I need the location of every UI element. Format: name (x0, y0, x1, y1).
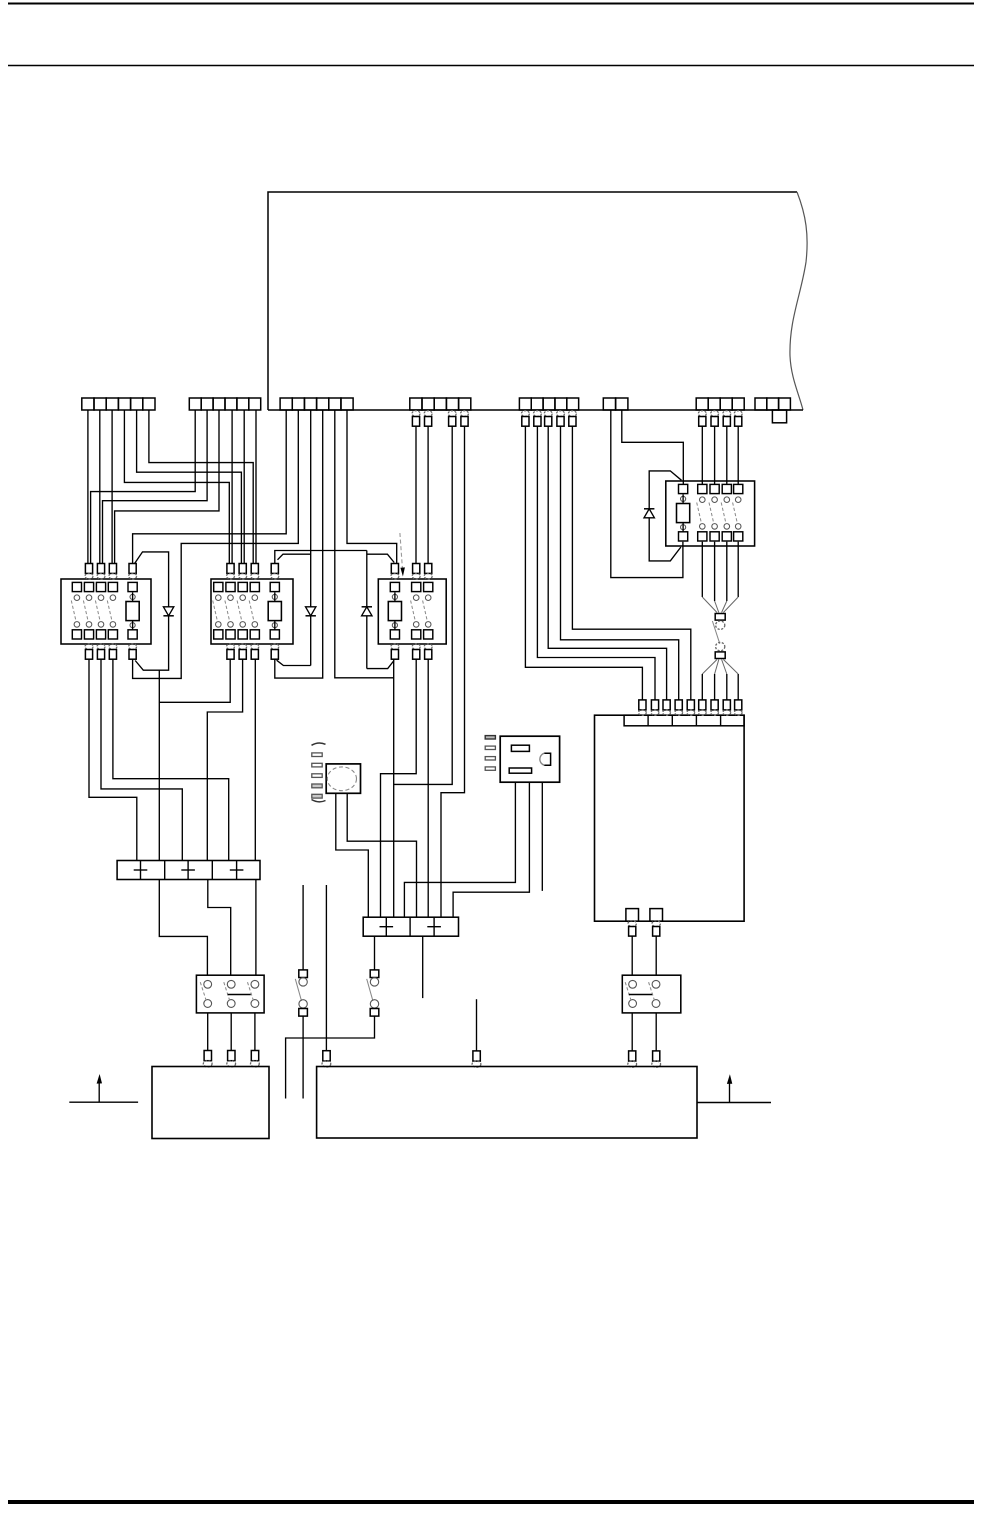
plug above relay K3 (413, 564, 420, 574)
relay contact terminal (bottom) (734, 532, 743, 541)
relay body (61, 579, 151, 644)
relay contact terminal (top) (424, 582, 433, 591)
relay contact terminal (top) (108, 582, 117, 591)
page header rule top (8, 3, 974, 5)
splice connector lower (715, 652, 725, 659)
diode D2 (across K2 coil) (306, 607, 316, 616)
relay contact fixed point (735, 497, 741, 503)
relay contact terminal (bottom) (722, 532, 731, 541)
wire K4 c2 to splice (714, 542, 716, 601)
plug below relay K3 (412, 644, 420, 650)
relay contact fixed point (252, 595, 258, 601)
plug below relay K2 (251, 644, 259, 650)
plug above relay K2 (271, 564, 278, 574)
wire D1 to K1 coil bottom (135, 616, 168, 670)
relay contact moving point (74, 622, 80, 628)
wire CN7-2 to K4 c2 (714, 426, 716, 484)
page footer rule (8, 1500, 974, 1504)
ground arrow (left) (98, 1081, 100, 1102)
wire S1-1 to junction box (207, 1013, 209, 1051)
relay contact terminal (bottom) (424, 630, 433, 639)
wire CN2-6 to K2 t4 (255, 410, 257, 564)
wire D3 bottom to K3 coil bottom (367, 661, 394, 669)
wire D4 bottom link (649, 518, 681, 561)
relay contact terminal (top) (214, 582, 223, 591)
wire CN2-4 to K2 t2 (231, 410, 233, 564)
wire CN5-4 to control t4 (561, 426, 679, 700)
relay contact blade (733, 503, 738, 524)
wire stub to fuse holder FH1 (302, 885, 304, 970)
relay contact fixed point (228, 595, 234, 601)
relay contact terminal (bottom) (72, 630, 81, 639)
plug above control unit (651, 700, 658, 710)
splice connector upper (715, 614, 725, 621)
plug above main box (mid) (473, 1051, 480, 1061)
relay coil lead bottom (132, 621, 134, 630)
relay contact blade (107, 601, 112, 622)
diode D1 (across K1 coil) (163, 607, 173, 616)
splice ring upper (716, 621, 725, 629)
wire CN3-6 to K3 coil top (347, 410, 397, 564)
relay contact terminal (top) (238, 582, 247, 591)
wire CN1-6 to K2 t4 (149, 410, 253, 564)
wire CN4-1 to K3 t2 (415, 426, 417, 563)
wire control unit to S2-1 (631, 936, 633, 975)
plug under CN7 (698, 411, 706, 417)
wire D2 vertical lower (310, 616, 312, 666)
plug below relay K2 (271, 644, 279, 650)
main control unit box (torn right edge) (268, 192, 797, 410)
relay contact moving point (240, 622, 246, 628)
wire K1 contact2 to F1 cell1 (89, 659, 137, 860)
AC outlet slot upper (511, 745, 529, 751)
plug below relay K1 (85, 644, 93, 650)
plug above main box (r2) (653, 1051, 660, 1061)
relay contact blade (225, 601, 230, 622)
switch box S2 (622, 975, 681, 1013)
relay contact fixed point (86, 595, 92, 601)
buzzer label bracket top (312, 743, 326, 745)
buzzer BZ1 body (326, 764, 360, 793)
connector CN8 (3-way, on unit edge) (755, 398, 767, 410)
splice blade (712, 621, 719, 644)
relay contact terminal (top) (722, 484, 731, 493)
plug above relay K2 (227, 564, 234, 574)
relay K1 group (61, 579, 151, 644)
relay coil joint bottom (681, 525, 686, 530)
relay body (211, 579, 293, 644)
wire CN1-1 to K1 t2 (87, 410, 89, 564)
relay contact fixed point (98, 595, 104, 601)
connector CN1 (6-way, floating left) (82, 398, 94, 410)
relay contact fixed point (425, 595, 431, 601)
plug above main box (r1) (629, 1051, 636, 1061)
relay contact moving point (413, 622, 419, 628)
wire K1 contact3 to F1 cell3 (101, 659, 182, 860)
relay contact terminal (bottom) (226, 630, 235, 639)
relay contact terminal (top) (698, 484, 707, 493)
plug above relay K2 (251, 564, 258, 574)
wire control unit to S2-2 (655, 936, 657, 975)
wire buzzer lead 1 to F2 cell1 (336, 793, 369, 917)
wire CN6-1 to K4 coil bottom (611, 410, 683, 578)
main harness box (bottom) (317, 1067, 697, 1139)
relay contact terminal (top) (710, 484, 719, 493)
relay contact terminal (bottom) (698, 532, 707, 541)
relay contact blade (83, 601, 88, 622)
relay contact fixed point (724, 497, 730, 503)
outlet label mark 3 (485, 757, 495, 760)
relay contact moving point (712, 524, 718, 530)
plug above control unit (711, 700, 718, 710)
buzzer label mark 4 (312, 784, 322, 788)
wire K3 coil bottom to F2 (393, 659, 395, 917)
wire CN7-3 to K4 c3 (726, 426, 728, 484)
relay contact terminal (top) (250, 582, 259, 591)
relay coil terminal (bottom) (128, 630, 137, 639)
connector CN4 (5-way, on unit edge) (410, 398, 422, 410)
outlet label mark 1 (485, 736, 495, 739)
wire K3 contact2 bottom to F2 (427, 659, 429, 917)
wire D2 to K2 coil bottom (277, 660, 311, 665)
connector CN8 hanging cell (772, 410, 786, 423)
joint block F2 (363, 917, 458, 936)
relay contact blade (237, 601, 242, 622)
ground lead line (right) (697, 1102, 771, 1104)
buzzer label mark 1 (312, 753, 322, 757)
buzzer BZ1 sound disc (327, 767, 356, 791)
buzzer label bracket bottom (312, 800, 326, 802)
plug above junction box 1 (204, 1051, 211, 1061)
wire D3 vertical (366, 551, 368, 607)
relay contact moving point (86, 622, 92, 628)
plug above relay K2 (239, 564, 246, 574)
wire CN1-3 to K1 t4 (111, 410, 113, 564)
relay contact moving point (724, 524, 730, 530)
wire CN3-4 to K2 coil bottom (275, 410, 323, 678)
plug below relay K3 (424, 644, 432, 650)
plug below relay K3 (391, 644, 399, 650)
plug under CN5 (568, 411, 576, 417)
relay contact terminal (top) (72, 582, 81, 591)
relay coil joint top (392, 594, 397, 599)
plug above control unit (663, 700, 670, 710)
relay coil joint top (272, 594, 277, 599)
relay coil terminal (top) (679, 484, 688, 493)
plug above relay K1 (97, 564, 104, 574)
relay contact terminal (bottom) (250, 630, 259, 639)
plug below relay K1 (97, 644, 105, 650)
plug above control unit (723, 700, 730, 710)
wire K4 c3 to splice (726, 542, 728, 601)
relay contact terminal (bottom) (412, 630, 421, 639)
wire K2 contact2 to F1 cell2 (159, 659, 230, 702)
buzzer label mark 2 (312, 763, 322, 767)
relay contact terminal (bottom) (108, 630, 117, 639)
wire K1 coil top to D1 (135, 552, 169, 607)
switch box S1 (196, 975, 264, 1013)
wire D4 top link (649, 471, 681, 509)
diode D3 (across K3 coil) (362, 607, 372, 616)
wire F1 to switch box S1-3 (255, 880, 257, 976)
relay contact blade (709, 503, 714, 524)
wire F1 to switch box S1-1 (159, 880, 207, 976)
wire K1 contact4 to F1 cell5 (113, 659, 229, 860)
plug above junction box 3 (251, 1051, 258, 1061)
plug above relay K1 (85, 564, 92, 574)
connector CN5 (5-way, on unit edge) (519, 398, 531, 410)
plug above relay K1 (129, 564, 136, 574)
relay coil lead bottom (274, 621, 276, 630)
plug below relay K2 (227, 644, 235, 650)
relay coil (677, 504, 690, 523)
relay contact fixed point (240, 595, 246, 601)
control unit bottom terminal 1 (626, 909, 639, 922)
plug under CN7 (723, 411, 731, 417)
plug below relay K2 (239, 644, 247, 650)
relay contact blade (697, 503, 702, 524)
relay body (378, 579, 446, 644)
relay contact fixed point (110, 595, 116, 601)
plug below control unit 1 (628, 921, 636, 927)
wire CN4-4 trunk to F2 (394, 426, 453, 784)
wire K2 coil top to D2 (278, 554, 311, 560)
relay contact terminal (bottom) (710, 532, 719, 541)
relay contact terminal (top) (412, 582, 421, 591)
wire stub to main box plug (476, 999, 478, 1051)
wire K2 coil top to D3 trunk (275, 551, 367, 564)
battery box (bottom left) (152, 1067, 269, 1139)
plug under CN5 (544, 411, 552, 417)
plug above relay K3 (425, 564, 432, 574)
relay coil joint bottom (392, 623, 397, 628)
plug above junction box 2 (228, 1051, 235, 1061)
wire CN3-5 down mid trunk (335, 410, 394, 678)
relay contact fixed point (712, 497, 718, 503)
wire CN1-4 to K2 t2 (124, 410, 229, 564)
wire S1-2 to junction box (230, 1013, 232, 1051)
relay contact terminal (bottom) (238, 630, 247, 639)
relay coil terminal (top) (128, 582, 137, 591)
page header rule bottom (8, 65, 974, 67)
connector CN6 (2-way, on unit edge) (603, 398, 615, 410)
relay coil lead bottom (394, 621, 396, 630)
plug under CN4 (424, 411, 432, 417)
wire F2 cell stub (422, 937, 424, 999)
relay coil joint bottom (130, 623, 135, 628)
wire K2 contact3 to F1 cell4 (207, 659, 242, 860)
plug below relay K1 (129, 644, 137, 650)
relay contact fixed point (74, 595, 80, 601)
relay contact fixed point (700, 497, 706, 503)
relay coil terminal (bottom) (270, 630, 279, 639)
buzzer label mark 3 (312, 774, 322, 778)
relay contact moving point (228, 622, 234, 628)
ground arrow (right) (729, 1081, 731, 1102)
relay coil terminal (bottom) (390, 630, 399, 639)
wire FH2 to stub left (286, 1016, 375, 1098)
wire CN3-2 to K1 coil bottom loop (133, 410, 299, 678)
AC outlet slot lower (509, 768, 531, 773)
plug under CN5 (521, 411, 529, 417)
diode D4 (across K4 coil) (644, 509, 654, 518)
relay coil terminal (top) (390, 582, 399, 591)
wire CN7-4 to K4 c4 (737, 426, 739, 484)
relay K3 group (378, 579, 446, 644)
relay contact terminal (top) (96, 582, 105, 591)
wire CN3-1 to K1 coil top (133, 410, 287, 564)
wire CN6-2 to K4 coil top (622, 410, 684, 484)
inline fuse holder FH1 (299, 970, 308, 978)
plug above control unit (735, 700, 742, 710)
relay K2 group (211, 579, 293, 644)
plug above control unit (699, 700, 706, 710)
relay contact terminal (bottom) (84, 630, 93, 639)
relay contact blade (411, 601, 416, 622)
wire CN4-5 trunk to F2 (441, 426, 465, 917)
relay coil joint top (130, 594, 135, 599)
relay contact fixed point (413, 595, 419, 601)
relay contact moving point (216, 622, 222, 628)
wire CN4-2 to K3 t3 (427, 426, 429, 563)
relay contact fixed point (216, 595, 222, 601)
relay coil lead top (132, 592, 134, 601)
wire K3 contact1 bottom to F2 (381, 659, 417, 917)
relay contact terminal (top) (84, 582, 93, 591)
plug below relay K1 (109, 644, 117, 650)
control unit box (595, 715, 745, 921)
relay contact moving point (110, 622, 116, 628)
connector CN2 (6-way, floating) (189, 398, 201, 410)
relay coil terminal (bottom) (679, 532, 688, 541)
wire buzzer lead 2 to F2 cell5 (347, 793, 416, 917)
relay coil (388, 602, 401, 621)
wire CN2-3 to K1 t4 (115, 410, 219, 564)
plug above relay K3 (391, 564, 398, 574)
relay coil lead top (274, 592, 276, 601)
wire outlet lead 3 stub (541, 782, 543, 891)
control unit terminal strip (624, 715, 744, 726)
relay body (666, 481, 755, 546)
relay coil terminal (top) (270, 582, 279, 591)
wire CN5-3 to control t3 (548, 426, 666, 700)
relay contact moving point (252, 622, 258, 628)
relay K4 group (666, 481, 755, 546)
relay coil (126, 602, 139, 621)
relay contact blade (423, 601, 428, 622)
plug under CN7 (711, 411, 719, 417)
relay contact blade (213, 601, 218, 622)
plug under CN4 (448, 411, 456, 417)
wire F1 to switch box S1-2 (208, 880, 231, 976)
plug above main box (left) (323, 1051, 330, 1061)
relay coil lead top (394, 592, 396, 601)
plug above control unit (687, 700, 694, 710)
relay contact moving point (98, 622, 104, 628)
relay contact terminal (top) (734, 484, 743, 493)
wire S2-1 to main box (631, 1013, 633, 1051)
relay coil joint top (681, 496, 686, 501)
joint block F1 (117, 861, 260, 880)
plug under CN5 (557, 411, 565, 417)
wire K4 c4 to splice (737, 542, 739, 597)
actuation leader arrow at K3 (400, 533, 403, 570)
relay coil lead top (682, 494, 684, 503)
relay contact moving point (425, 622, 431, 628)
relay contact blade (721, 503, 726, 524)
wire D3 top to K3 coil top (367, 554, 394, 562)
wire CN1-5 to K2 t3 (137, 410, 242, 564)
outlet label mark 4 (485, 767, 495, 770)
wire splice to control t7 (715, 660, 719, 675)
inline fuse holder FH2 (370, 970, 379, 978)
wire splice to control t9 (723, 660, 738, 675)
relay contact blade (249, 601, 254, 622)
relay coil lead bottom (682, 523, 684, 532)
plug under CN4 (412, 411, 420, 417)
AC outlet body (500, 736, 559, 782)
wire CN2-5 to K2 t3 (243, 410, 245, 564)
plug below control unit 2 (652, 921, 660, 927)
wire CN2-2 to K1 t3 (103, 410, 208, 564)
plug above control unit (639, 700, 646, 710)
plug under CN5 (533, 411, 541, 417)
wire outlet lead 1 to F2 cell4 (404, 782, 515, 917)
relay contact terminal (bottom) (214, 630, 223, 639)
outlet label mark 2 (485, 746, 495, 749)
wire CN2-1 to K1 t2 (91, 410, 196, 564)
relay contact moving point (700, 524, 706, 530)
wire K4 c1 to splice (701, 542, 703, 597)
plug above relay K1 (109, 564, 116, 574)
relay coil (268, 602, 281, 621)
connector CN7 (4-way, on unit edge) (696, 398, 708, 410)
wire trunk to main box plug left (325, 885, 327, 1051)
relay contact terminal (top) (226, 582, 235, 591)
control unit bottom terminal 2 (650, 909, 663, 922)
wire S1-3 to junction box (254, 1013, 256, 1051)
relay contact moving point (735, 524, 741, 530)
relay contact blade (95, 601, 100, 622)
plug above control unit (675, 700, 682, 710)
wire CN3-3 to D2 branch (310, 410, 312, 607)
plug under CN7 (734, 411, 742, 417)
relay contact terminal (bottom) (96, 630, 105, 639)
wire D1 branch to fuse block F1 (158, 670, 160, 860)
wire splice to control t8 (722, 660, 727, 675)
relay coil joint bottom (272, 623, 277, 628)
wire K2 contact4 to F1 cell6 (254, 659, 256, 860)
AC outlet ground hole (544, 753, 550, 765)
plug under CN4 (461, 411, 469, 417)
wire FH1 bottom stub (302, 1016, 304, 1098)
wire F2 to fuse holder FH2 (374, 937, 376, 970)
wire CN7-1 to K4 c1 (701, 426, 703, 484)
wire CN5-1 to control t1 (525, 426, 642, 700)
wire S2-2 to main box (655, 1013, 657, 1051)
wire CN5-2 to control t2 (537, 426, 655, 700)
connector CN3 (6-way, on unit edge) (280, 398, 292, 410)
wire splice to control t6 (702, 660, 717, 675)
ground lead line (left) (69, 1101, 138, 1103)
relay contact blade (71, 601, 76, 622)
buzzer label mark 5 (312, 794, 322, 798)
splice ring lower (716, 642, 725, 650)
wire CN5-5 to control t5 (572, 426, 690, 700)
wire outlet lead 2 to F2 cell8 (453, 782, 529, 917)
wire CN1-2 to K1 t3 (99, 410, 101, 564)
